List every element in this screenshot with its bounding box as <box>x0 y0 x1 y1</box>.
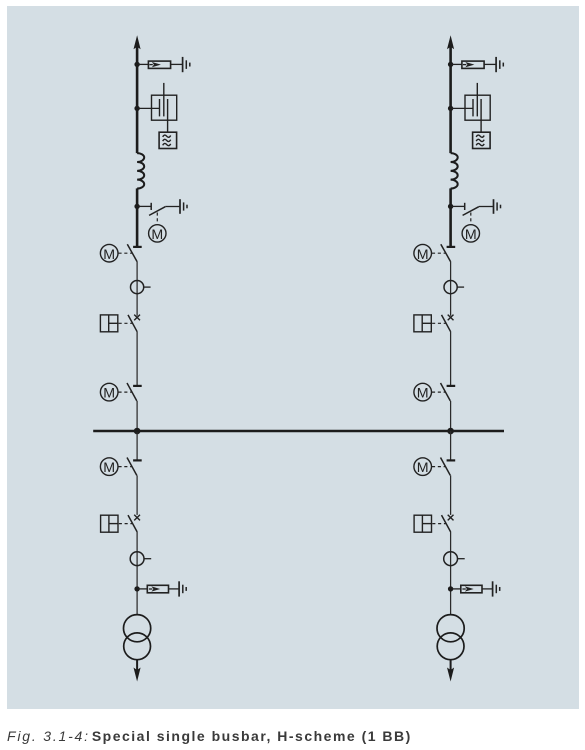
circuit breaker contact cross (upper CB) B <box>448 315 454 321</box>
ground (earthing switch electrode) B <box>493 199 495 214</box>
circuit breaker contact cross (upper CB) A <box>134 315 140 321</box>
svg-text:M: M <box>103 386 115 402</box>
transformer winding (lower circle) B <box>437 633 464 660</box>
line trap inductor B <box>451 153 458 188</box>
PLC coupling unit box B <box>473 132 491 148</box>
ground (earth electrode of bottom surge arrester) B <box>492 581 494 596</box>
wire: dashed motor link (disconnector below busbar) A <box>119 466 132 468</box>
wire from surge arrester to earth B <box>484 63 495 65</box>
wire to earthing switch A <box>138 205 151 207</box>
disconnector fixed contact bar (line side) B <box>447 246 456 248</box>
current transformer (line side) A <box>131 281 144 294</box>
capacitor plate / antenna lead B <box>476 83 478 117</box>
PLC wave symbol A <box>163 135 171 137</box>
svg-text:M: M <box>103 460 115 476</box>
disconnector blade (above busbar) A <box>127 383 137 401</box>
ground (earthing switch electrode) A <box>179 199 181 214</box>
busbar BB <box>93 430 504 433</box>
wire below lower disconnector B <box>450 475 452 515</box>
transformer winding (upper circle) B <box>437 615 464 642</box>
node: junction dot at surge-arrester tap B <box>448 62 453 67</box>
node: junction dot at lower surge-arrester tap B <box>448 586 453 591</box>
wire to coupling capacitor A <box>138 107 160 109</box>
wire to lower surge arrester A <box>138 588 147 590</box>
earthing switch blade A <box>149 207 165 216</box>
surge arrester (top) A <box>148 61 170 68</box>
wire from busbar to lower disconnector A <box>136 431 138 460</box>
capacitor plate to PLC A <box>167 99 169 132</box>
wire: dashed control link (lower CB) A <box>119 523 132 525</box>
wire below line disconnector A <box>136 261 138 316</box>
line arrow (incoming overhead line A) <box>134 35 141 49</box>
wire below upper CB B <box>450 332 452 385</box>
transformer winding (upper circle) A <box>124 615 151 642</box>
wire: dashed control link (lower CB) B <box>432 523 445 525</box>
wire from busbar to lower disconnector B <box>450 431 452 460</box>
load arrow (outgoing feeder) B <box>447 668 454 682</box>
circuit breaker blade (upper CB) B <box>442 315 451 332</box>
PLC coupling unit box A <box>159 132 177 148</box>
current transformer (transformer side) B <box>444 552 458 566</box>
wire to earthing switch B <box>452 205 465 207</box>
load arrow (outgoing feeder) A <box>134 668 141 682</box>
capacitor voltage transformer box A <box>152 95 177 120</box>
wire below lower CB B <box>450 532 452 615</box>
wire: thick feeder line below line trap B <box>449 188 452 247</box>
wire below line disconnector B <box>450 261 452 316</box>
transformer winding (lower circle) A <box>124 633 151 660</box>
ground (earth electrode of top surge arrester) B <box>495 57 497 72</box>
wire: dashed motor link (disconnector above busbar) A <box>119 391 132 393</box>
wire: dashed control link (upper CB) B <box>432 322 446 324</box>
wire: dashed motor-drive link of earthing switch B <box>470 213 472 225</box>
capacitor plate / antenna lead A <box>163 83 165 117</box>
wire from lower surge arrester to earth B <box>482 588 492 590</box>
svg-text:M: M <box>417 386 429 402</box>
node: junction dot at earthing-switch tap B <box>448 204 453 209</box>
capacitor voltage transformer box B <box>465 95 490 120</box>
node: junction dot at voltage-transformer tap B <box>448 106 453 111</box>
motor operator M (disconnector above busbar) A <box>100 383 118 401</box>
disconnector blade (above busbar) B <box>441 383 451 401</box>
wire from lower surge arrester to earth A <box>169 588 179 590</box>
wire: dashed motor-drive link of earthing switch A <box>156 213 158 225</box>
wire below transformer A <box>136 660 138 672</box>
svg-text:M: M <box>417 460 429 476</box>
wire: dashed motor link (disconnector below busbar) B <box>432 466 445 468</box>
node: junction dot at voltage-transformer tap A <box>134 106 139 111</box>
current transformer (line side) B <box>444 281 457 294</box>
disconnector fixed contact bar (above busbar) A <box>133 385 142 387</box>
circuit breaker contact cross (lower CB) A <box>134 515 140 521</box>
motor operator M (disconnector below busbar) B <box>414 458 432 476</box>
wire to surge arrester B <box>452 63 462 65</box>
motor operator M (earthing switch) B <box>462 225 479 242</box>
wire to lower surge arrester B <box>452 588 461 590</box>
ground (earth electrode of bottom surge arrester) A <box>178 581 180 596</box>
node: busbar junction dot A <box>134 428 141 435</box>
node: busbar junction dot B <box>447 428 454 435</box>
wire from surge arrester to earth A <box>171 63 182 65</box>
disconnector blade (below busbar) A <box>127 458 137 476</box>
motor operator M (disconnector above busbar) B <box>414 383 432 401</box>
circuit breaker blade (upper CB) A <box>128 315 137 332</box>
disconnector fixed contact bar (below busbar) B <box>447 459 456 461</box>
capacitor plate (left) B <box>472 99 474 116</box>
line arrow (incoming overhead line B) <box>447 35 454 49</box>
line trap inductor A <box>137 153 144 188</box>
disconnector fixed contact bar (above busbar) B <box>447 385 456 387</box>
disconnector fixed contact bar (line side) A <box>133 246 142 248</box>
wire: dashed motor link (disconnector above busbar) B <box>432 391 445 393</box>
circuit breaker contact cross (lower CB) B <box>448 515 454 521</box>
circuit breaker control box (upper CB) A <box>100 315 117 332</box>
wire: dashed control link (upper CB) A <box>119 322 133 324</box>
svg-text:M: M <box>465 227 477 243</box>
wire from earthing switch to earth B <box>479 206 493 208</box>
earthing switch blade B <box>463 207 479 216</box>
motor operator M (line disconnector) A <box>100 244 118 262</box>
wire: thick feeder line upper segment A <box>136 47 139 154</box>
earthing switch fixed contact B <box>464 203 466 210</box>
surge arrester (bottom) A <box>147 585 168 593</box>
circuit breaker control box (lower CB) A <box>101 515 118 532</box>
capacitor plate to PLC B <box>480 99 482 132</box>
wire: thick feeder line upper segment B <box>449 47 452 154</box>
wire: thick feeder line below line trap A <box>136 188 139 247</box>
node: junction dot at lower surge-arrester tap A <box>134 586 139 591</box>
wire from earthing switch to earth A <box>165 206 179 208</box>
ground (earth electrode of top surge arrester) A <box>182 57 184 72</box>
PLC wave symbol B <box>476 135 484 137</box>
earthing switch fixed contact A <box>150 203 152 210</box>
capacitor plate (left) A <box>159 99 161 116</box>
circuit breaker control box (upper CB) B <box>414 315 431 332</box>
wire below lower disconnector A <box>136 475 138 515</box>
wire from disconnector down to busbar A <box>136 401 138 431</box>
motor operator M (earthing switch) A <box>149 225 166 242</box>
circuit breaker blade (lower CB) B <box>442 515 451 532</box>
circuit breaker blade (lower CB) A <box>128 515 137 532</box>
svg-text:M: M <box>103 247 115 263</box>
wire to coupling capacitor B <box>452 107 474 109</box>
figure caption <box>7 728 412 744</box>
wire below upper CB A <box>136 332 138 385</box>
disconnector blade (line side) B <box>441 244 451 261</box>
disconnector fixed contact bar (below busbar) A <box>133 459 142 461</box>
surge arrester (bottom) B <box>461 585 482 593</box>
motor operator M (disconnector below busbar) A <box>100 458 118 476</box>
wire from disconnector down to busbar B <box>450 401 452 431</box>
motor operator M (line disconnector) B <box>414 244 432 262</box>
disconnector blade (below busbar) B <box>441 458 451 476</box>
svg-text:M: M <box>151 227 163 243</box>
wire below lower CB A <box>136 532 138 615</box>
surge arrester (top) B <box>462 61 484 68</box>
current transformer (transformer side) A <box>130 552 144 566</box>
node: junction dot at earthing-switch tap A <box>134 204 139 209</box>
circuit breaker control box (lower CB) B <box>414 515 431 532</box>
wire to surge arrester A <box>138 63 148 65</box>
wire: dashed motor link (line disconnector) A <box>119 252 133 254</box>
wire below transformer B <box>450 660 452 672</box>
disconnector blade (line side) A <box>127 244 137 261</box>
svg-text:M: M <box>417 247 429 263</box>
node: junction dot at surge-arrester tap A <box>134 62 139 67</box>
wire: dashed motor link (line disconnector) B <box>432 252 446 254</box>
